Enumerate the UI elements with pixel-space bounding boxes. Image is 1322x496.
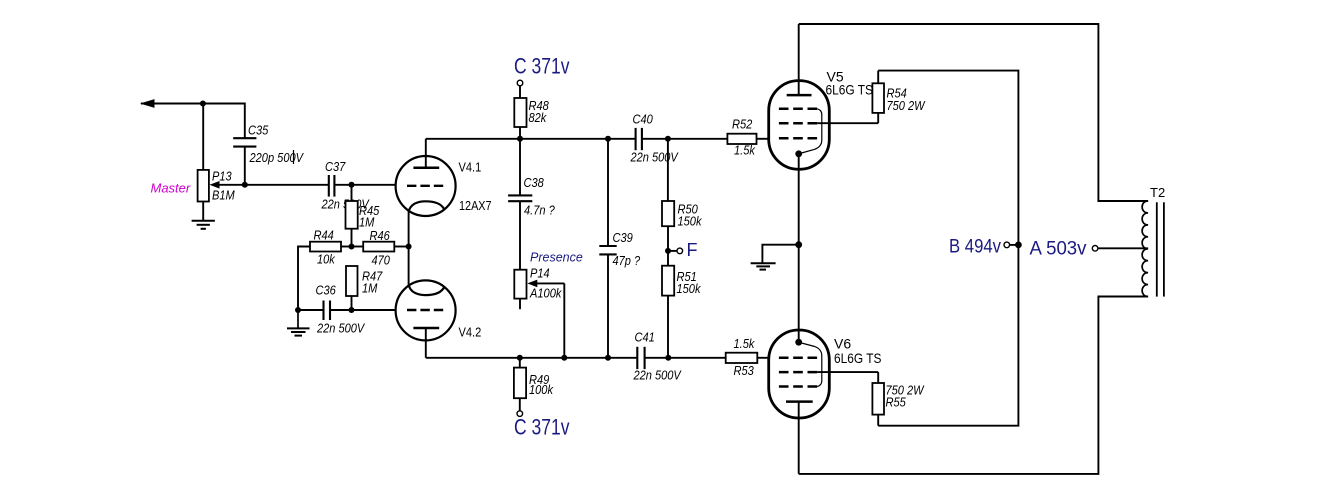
terminal C 371v bottom (514, 411, 570, 440)
svg-text:C 371v: C 371v (514, 415, 570, 440)
svg-text:F: F (687, 240, 698, 260)
svg-text:12AX7: 12AX7 (459, 198, 492, 213)
svg-text:R55: R55 (886, 395, 907, 410)
svg-text:T2: T2 (1150, 185, 1165, 200)
resistor R46 (352, 228, 409, 268)
resistor R50 (662, 139, 703, 251)
terminal A 503v (1030, 239, 1149, 260)
ground below P13 (192, 221, 215, 229)
resistor R51 (662, 251, 702, 358)
capacitor C39 (599, 139, 640, 358)
svg-text:R44: R44 (314, 228, 334, 243)
wire cathode link V4.1 V4.2 (408, 211, 410, 287)
resistor R47 (346, 266, 383, 310)
svg-text:R53: R53 (734, 363, 755, 378)
potentiometer P13 (151, 104, 245, 221)
node cathodes V5 V6 (795, 241, 802, 248)
resistor R53 (726, 336, 769, 378)
svg-text:6L6G TS: 6L6G TS (834, 350, 881, 366)
resistor R44 (298, 228, 352, 311)
svg-text:82k: 82k (529, 110, 548, 125)
node R44 R45 R46 R47 (349, 244, 355, 250)
wire grid row V4.1 (245, 184, 396, 186)
wire anode rail top (799, 24, 1148, 201)
terminal B 494v (949, 237, 1022, 258)
svg-text:150k: 150k (677, 281, 702, 296)
wire plate row bottom (426, 357, 726, 359)
svg-text:C 371v: C 371v (514, 54, 570, 79)
node cathodes R46 (406, 244, 412, 250)
svg-text:A 503v: A 503v (1030, 239, 1087, 260)
svg-text:22n 500V: 22n 500V (633, 368, 682, 383)
svg-text:R52: R52 (732, 117, 753, 132)
node C40 R50 (665, 136, 671, 142)
svg-text:P14: P14 (530, 266, 550, 281)
wire top-left to C35 (203, 104, 245, 139)
svg-text:1.5k: 1.5k (734, 336, 756, 351)
wire screen rail (878, 71, 1018, 426)
svg-text:6L6G TS: 6L6G TS (826, 82, 873, 98)
wire plate row top (426, 138, 728, 140)
node R49 bottom row (517, 355, 523, 361)
resistor R55 (817, 372, 925, 426)
node R47 C36 grid V4.2 (349, 307, 355, 313)
resistor R48 (514, 86, 549, 139)
capacitor C38 (508, 139, 555, 270)
svg-text:V4.1: V4.1 (459, 160, 482, 175)
node C39 plate row (605, 136, 611, 142)
svg-text:C38: C38 (524, 175, 545, 190)
svg-text:1M: 1M (362, 281, 378, 296)
node P14 wiper bottom row (561, 355, 567, 361)
svg-text:150k: 150k (678, 214, 703, 229)
ground cathode V5 V6 (751, 245, 799, 270)
capacitor C35 (233, 123, 304, 185)
wire grid row V4.2 (352, 309, 397, 311)
svg-text:Presence: Presence (530, 251, 583, 265)
triode V4.1 (396, 139, 492, 216)
svg-text:C35: C35 (248, 123, 269, 138)
svg-text:22n 500V: 22n 500V (630, 150, 679, 165)
tube V6 (769, 245, 882, 474)
svg-text:P13: P13 (212, 169, 232, 184)
transformer T2 (1142, 185, 1165, 297)
node R51 bottom row (665, 355, 671, 361)
node R48 plate row (517, 136, 523, 142)
svg-text:220p 500V: 220p 500V (249, 150, 304, 165)
ground below C36 (287, 310, 310, 336)
svg-text:1.5k: 1.5k (734, 143, 756, 158)
terminal C 371v top (514, 54, 570, 86)
svg-text:B 494v: B 494v (949, 237, 1001, 258)
node master wiper junction (242, 182, 248, 188)
node C39 bottom row (605, 355, 611, 361)
svg-text:C36: C36 (316, 283, 337, 298)
svg-text:C39: C39 (613, 230, 633, 245)
svg-text:V4.2: V4.2 (459, 325, 482, 340)
svg-text:4.7n ?: 4.7n ? (524, 203, 555, 218)
svg-text:22n 500V: 22n 500V (316, 321, 365, 336)
capacitor C37 (321, 159, 370, 212)
svg-text:10k: 10k (317, 252, 336, 267)
resistor R54 (817, 71, 926, 124)
triode V4.2 (396, 280, 482, 357)
svg-text:B1M: B1M (212, 188, 235, 203)
svg-text:C41: C41 (635, 330, 655, 345)
resistor R45 (346, 185, 380, 247)
svg-text:A100k: A100k (529, 286, 563, 301)
svg-text:C40: C40 (633, 111, 654, 126)
capacitor C41 (633, 330, 682, 383)
node C36 ground leg (295, 307, 301, 313)
node grid junction V4.1 (349, 182, 355, 188)
potentiometer P14 (514, 251, 583, 358)
node junction arrow/P13 (200, 101, 206, 107)
svg-text:C37: C37 (325, 159, 346, 174)
capacitor C36 (298, 283, 365, 336)
svg-text:100k: 100k (529, 382, 554, 397)
svg-text:47p ?: 47p ? (613, 253, 641, 268)
tube V5 (769, 24, 873, 245)
resistor R52 (727, 117, 768, 158)
svg-text:Master: Master (151, 181, 191, 196)
terminal F (665, 240, 698, 260)
svg-text:750 2W: 750 2W (887, 98, 927, 113)
input arrow (140, 99, 203, 108)
wire anode rail bottom (799, 297, 1148, 474)
svg-text:R46: R46 (370, 228, 391, 243)
resistor R49 (514, 358, 554, 411)
capacitor C40 (630, 111, 679, 164)
svg-text:470: 470 (372, 253, 391, 268)
